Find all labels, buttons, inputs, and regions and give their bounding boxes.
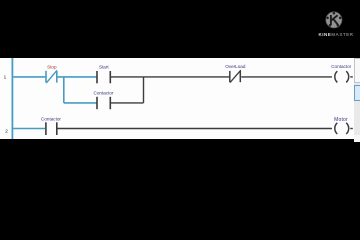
svg-text:Contactor: Contactor xyxy=(94,91,114,96)
svg-text:1: 1 xyxy=(4,75,7,80)
svg-text:Start: Start xyxy=(99,64,109,69)
svg-text:Contactor: Contactor xyxy=(41,117,61,122)
svg-text:OverLoad: OverLoad xyxy=(225,64,246,69)
svg-text:Stop: Stop xyxy=(47,64,57,69)
svg-text:2: 2 xyxy=(5,129,8,134)
svg-text:Contactor: Contactor xyxy=(331,64,351,69)
svg-text:KINEMASTER: KINEMASTER xyxy=(319,32,354,37)
svg-text:Motor: Motor xyxy=(334,117,348,123)
